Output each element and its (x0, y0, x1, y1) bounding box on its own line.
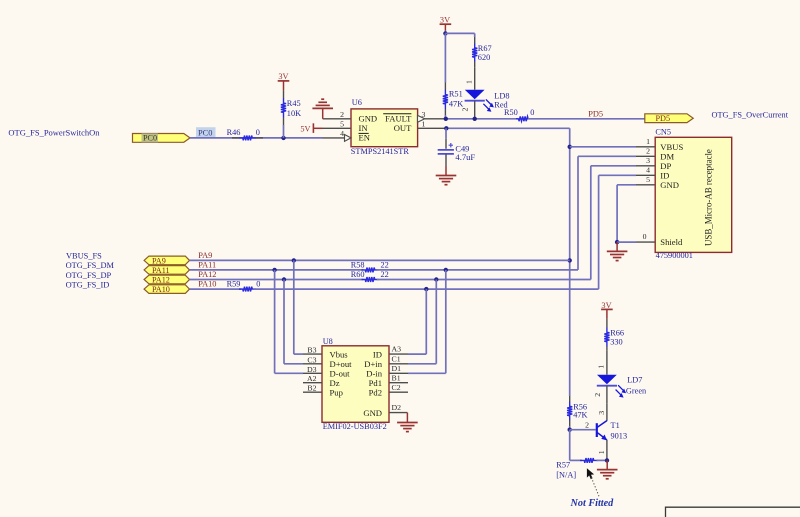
svg-text:U6: U6 (352, 98, 362, 107)
resistor R46 (232, 136, 263, 141)
svg-text:PC0: PC0 (198, 129, 212, 138)
svg-text:OUT: OUT (394, 123, 412, 133)
wire U8 D-out column (275, 270, 303, 373)
LED LD7 pin 1 wire (597, 351, 607, 375)
net name VBUS_FS (66, 251, 102, 260)
LED LD8 pin 2 wire (461, 101, 475, 119)
junction OUT/C49 (444, 126, 448, 130)
highlight behind net label PC0 (196, 127, 216, 137)
junction node R46/R45/EN (281, 136, 285, 140)
ground at CN5 shield (607, 242, 628, 261)
junction PA10/U8 ID (424, 287, 428, 291)
wire U8 D+in column (408, 280, 436, 364)
wire base node to R57 (570, 430, 582, 461)
svg-text:PD5: PD5 (656, 114, 671, 123)
wire DP column (591, 166, 636, 280)
port PA9 (144, 256, 189, 265)
resistor R45 (281, 90, 286, 125)
svg-text:PA12: PA12 (198, 270, 216, 279)
svg-text:DP: DP (660, 161, 671, 171)
ground at U6 pin 2 (312, 99, 333, 119)
svg-text:330: 330 (610, 337, 622, 346)
svg-text:4: 4 (340, 129, 344, 138)
svg-text:5: 5 (646, 175, 650, 184)
U8 pin name GND (363, 408, 382, 418)
CN5 pin name DM (660, 152, 674, 162)
U8 pin C3 (303, 355, 322, 364)
resistor R46 label (227, 128, 260, 137)
CN5 pin 0 Shield (636, 232, 655, 242)
svg-text:0: 0 (256, 128, 260, 137)
svg-text:GND: GND (359, 113, 378, 123)
svg-text:GND: GND (660, 180, 679, 190)
wire ID column (599, 175, 636, 289)
U8 pin C2 (389, 383, 408, 392)
resistor R45 labels (287, 99, 301, 118)
svg-text:A2: A2 (307, 374, 317, 383)
svg-text:D+out: D+out (330, 359, 353, 369)
svg-text:2: 2 (585, 420, 589, 429)
svg-text:VBUS_FS: VBUS_FS (66, 251, 102, 260)
U6 pin 5 IN (323, 120, 352, 129)
wire R50 to port PD5 (528, 118, 645, 120)
svg-text:R59: R59 (227, 280, 241, 289)
LED LD8 pin 1 wire (464, 68, 474, 90)
transistor T1 labels (611, 421, 628, 440)
svg-text:GND: GND (363, 408, 382, 418)
U6 pin 1 OUT (418, 120, 447, 129)
svg-text:OTG_FS_OverCurrent: OTG_FS_OverCurrent (712, 110, 789, 119)
U6 pin name IN (359, 123, 369, 133)
U8 designator (323, 337, 333, 346)
wire PA9 bus (190, 259, 570, 261)
wire U8 D+out column (284, 280, 303, 364)
resistor R57 labels (556, 461, 576, 480)
U8 pin name Pd2 (369, 388, 382, 398)
LED LD7 (597, 375, 626, 398)
CN5 pin name ID (660, 171, 669, 181)
svg-text:C1: C1 (392, 354, 401, 363)
U6 part number STMPS2141STR (351, 147, 410, 156)
svg-text:PA9: PA9 (152, 256, 166, 265)
CN5 pin 2 (636, 147, 655, 157)
resistor R50 labels (504, 108, 534, 117)
svg-text:1: 1 (464, 80, 473, 84)
svg-text:EN: EN (359, 133, 371, 143)
LED LD7 labels (626, 375, 647, 395)
svg-text:VBUS: VBUS (660, 142, 683, 152)
wire shield node to pin 0 (617, 241, 636, 243)
transistor T1 emitter wire (597, 440, 607, 461)
wire CN5 GND to shield node (617, 185, 636, 242)
U6 pin name OUT (394, 123, 412, 133)
CN5 pin name VBUS (660, 142, 683, 152)
wire base node to T1 (570, 420, 596, 429)
svg-text:OTG_FS_DM: OTG_FS_DM (66, 261, 115, 270)
net name OTG_FS_DP (66, 271, 112, 280)
wire VBUS to CN5 pin 1 (570, 146, 636, 148)
CN5 pin name DP (660, 161, 671, 171)
svg-text:LD8: LD8 (494, 92, 509, 101)
svg-text:2: 2 (340, 110, 344, 119)
capacitor C49 (438, 128, 454, 154)
svg-text:475900001: 475900001 (656, 251, 693, 260)
transistor T1 (597, 421, 607, 441)
svg-text:PA10: PA10 (198, 280, 216, 289)
resistor R57 (580, 458, 598, 463)
Not Fitted annotation (570, 498, 615, 509)
net name OTG_FS_PowerSwitchOn (8, 127, 100, 137)
wire R57 to emitter (597, 459, 608, 461)
CN5 pin 3 (636, 156, 655, 166)
svg-text:D2: D2 (392, 403, 402, 412)
svg-text:0: 0 (530, 108, 534, 117)
svg-text:Dz: Dz (330, 378, 340, 388)
svg-text:47K: 47K (449, 99, 463, 108)
svg-text:EMIF02-USB03F2: EMIF02-USB03F2 (323, 422, 387, 431)
port PA10 (144, 285, 189, 294)
svg-text:D3: D3 (307, 365, 317, 374)
resistor R67 (472, 37, 477, 68)
svg-text:1: 1 (597, 365, 606, 369)
svg-text:3V: 3V (278, 72, 288, 81)
U6 pin 2 GND (323, 110, 351, 119)
wire PA11 to R58 (190, 269, 364, 271)
svg-text:1: 1 (646, 137, 650, 146)
resistor R51 (443, 33, 448, 118)
svg-text:3V: 3V (440, 15, 450, 24)
svg-text:5: 5 (340, 120, 344, 129)
svg-text:R57: R57 (556, 461, 570, 470)
ground at T1 emitter (597, 460, 618, 478)
wire U8 D-in column (408, 270, 446, 373)
U6 pin name FAULT (active low) (383, 113, 412, 123)
power 3V (R45) (278, 72, 290, 91)
junction FAULT/R51 (444, 117, 448, 121)
svg-text:U8: U8 (323, 337, 333, 346)
resistor R51 labels (449, 90, 463, 109)
svg-text:4.7uF: 4.7uF (455, 152, 475, 162)
U6 pin name GND (359, 113, 378, 123)
svg-text:PA12: PA12 (152, 275, 170, 284)
svg-text:D1: D1 (392, 364, 402, 373)
resistor R60 labels (351, 270, 389, 279)
junction DM/U8 D-in (444, 268, 448, 272)
resistor R58 (362, 268, 379, 273)
resistor R59 labels (227, 280, 261, 289)
wire R58 to DM column (377, 269, 578, 271)
U8 pin B2 (303, 384, 322, 393)
junction PA12/U8 D+out (282, 277, 286, 281)
filter U8 body (322, 346, 389, 423)
junction PA11/U8 D-out (272, 268, 276, 272)
net label PA10 (198, 280, 216, 289)
U8 pin D1 (389, 364, 408, 373)
svg-text:PA11: PA11 (152, 266, 170, 275)
svg-text:CN5: CN5 (655, 127, 671, 136)
U8 pin name Vbus (330, 350, 349, 360)
U8 pin name D-out (330, 369, 351, 379)
svg-text:R46: R46 (227, 128, 241, 137)
wire PA12 to R60 (190, 279, 364, 281)
svg-text:IN: IN (359, 123, 369, 133)
svg-text:4: 4 (646, 166, 650, 175)
capacitor C49 labels (455, 144, 475, 162)
svg-text:22: 22 (381, 270, 389, 279)
svg-text:3: 3 (597, 411, 606, 415)
CN5 designator (655, 127, 671, 136)
resistor R59 (239, 287, 256, 292)
resistor R58 labels (351, 261, 389, 270)
U8 pin B1 (389, 373, 408, 382)
power 5V at U6 IN (300, 123, 322, 133)
resistor R56 labels (573, 402, 587, 419)
net label PD5 (588, 109, 603, 118)
svg-text:2: 2 (646, 147, 650, 156)
U6 pin 3 FAULT (418, 110, 447, 122)
junction VBUS/PA9 (568, 258, 572, 262)
U8 pin D3 (303, 365, 322, 374)
U8 part number EMIF02-USB03F2 (323, 422, 387, 431)
svg-text:2: 2 (593, 393, 602, 397)
wire R60 to DP column (377, 279, 591, 281)
wire PC0 to EN (190, 137, 323, 139)
LED LD7 pin 2 wire (593, 386, 607, 404)
svg-text:Shield: Shield (660, 237, 683, 247)
svg-text:PA11: PA11 (198, 261, 216, 270)
svg-text:1: 1 (597, 450, 606, 454)
svg-text:620: 620 (478, 53, 490, 62)
transistor T1 collector wire (597, 404, 607, 421)
CN5 pin name GND (660, 180, 679, 190)
junction VBUS/CN5 pin1 (568, 145, 572, 149)
port PA11 (144, 266, 189, 275)
svg-text:R66: R66 (610, 329, 624, 338)
svg-text:2: 2 (461, 108, 470, 112)
LED LD8 (465, 90, 494, 112)
svg-text:3: 3 (646, 156, 650, 165)
resistor R60 (362, 277, 379, 282)
svg-text:Pd1: Pd1 (369, 378, 382, 388)
CN5 pin 4 (636, 166, 655, 176)
U8 pin C1 (389, 354, 408, 363)
svg-text:0: 0 (256, 280, 260, 289)
title block corner (666, 507, 800, 517)
junction shield node (615, 240, 619, 244)
node A junction (443, 31, 447, 35)
svg-text:LD7: LD7 (627, 375, 642, 384)
CN5 pin name Shield (660, 237, 683, 247)
svg-text:0: 0 (643, 232, 647, 241)
svg-text:B3: B3 (307, 346, 316, 355)
U8 pin name ID (373, 350, 382, 360)
wire DM column (578, 156, 636, 270)
svg-text:R51: R51 (449, 90, 463, 99)
svg-text:C3: C3 (307, 355, 316, 364)
svg-text:Not Fitted: Not Fitted (570, 498, 615, 509)
resistor R50 (516, 116, 531, 121)
U8 pin name D-in (366, 369, 382, 379)
CN5 part number 475900001 (656, 251, 693, 260)
junction emitter node (605, 458, 609, 462)
net label PA11 (198, 261, 216, 270)
wire U8 Vbus column (294, 260, 303, 354)
svg-text:B1: B1 (392, 373, 401, 382)
port PD5 (645, 114, 693, 123)
svg-text:Pd2: Pd2 (369, 388, 382, 398)
U8 pin name Pd1 (369, 378, 382, 388)
svg-text:3: 3 (422, 110, 426, 119)
svg-text:R50: R50 (504, 108, 518, 117)
svg-text:9013: 9013 (611, 431, 628, 440)
svg-text:C2: C2 (392, 383, 401, 392)
wire node A to R67 branch (445, 33, 474, 37)
U6 pin 4 EN (323, 129, 352, 141)
svg-text:FAULT: FAULT (385, 113, 412, 123)
CN5 pin 5 (636, 175, 655, 185)
svg-text:10K: 10K (287, 109, 301, 118)
dotted callout line (592, 478, 599, 496)
op-amp U6 body (351, 109, 418, 147)
U6 designator (352, 98, 362, 107)
resistor R66 (604, 319, 609, 351)
cursor arrow (587, 468, 594, 479)
svg-text:PD5: PD5 (588, 109, 603, 118)
resistor R56 (567, 396, 572, 430)
resistor R66 labels (610, 329, 624, 347)
junction FAULT/LD8 (473, 117, 477, 121)
wire U8 ID column (408, 289, 426, 354)
svg-text:ID: ID (373, 350, 382, 360)
ground below C49 (436, 154, 457, 185)
U8 pin name Pup (330, 388, 343, 398)
U8 pin A3 (389, 345, 408, 354)
highlight on port PC0 text (142, 133, 159, 142)
net name OTG_FS_DM (66, 261, 115, 270)
U8 pin D2 GND (389, 403, 407, 412)
svg-text:R60: R60 (351, 270, 365, 279)
CN5 rotated text (704, 149, 714, 246)
CN5 pin 1 (636, 137, 655, 147)
svg-text:T1: T1 (611, 421, 620, 430)
svg-text:R45: R45 (287, 99, 301, 108)
svg-text:OTG_FS_DP: OTG_FS_DP (66, 271, 112, 280)
svg-text:22: 22 (381, 261, 389, 270)
U8 pin B3 (303, 346, 322, 355)
svg-text:OTG_FS_PowerSwitchOn: OTG_FS_PowerSwitchOn (8, 127, 100, 137)
net label PA12 (198, 270, 216, 279)
svg-text:ID: ID (660, 171, 669, 181)
svg-text:USB_Micro-AB receptacle: USB_Micro-AB receptacle (704, 149, 714, 246)
svg-text:R58: R58 (351, 261, 365, 270)
svg-text:Pup: Pup (330, 388, 343, 398)
svg-text:PA10: PA10 (152, 285, 170, 294)
net name OTG_FS_ID (66, 280, 110, 289)
svg-text:3V: 3V (601, 301, 611, 310)
resistor R67 labels (478, 44, 492, 62)
net label PA9 (198, 251, 212, 260)
port PC0 (133, 134, 191, 143)
svg-text:B2: B2 (307, 384, 316, 393)
net label PC0 (198, 129, 212, 138)
svg-text:5V: 5V (300, 124, 310, 133)
U6 pin name EN (active low) (359, 133, 371, 143)
U8 pin A2 (303, 374, 322, 383)
wire 3V to node A (444, 31, 446, 34)
port PA12 (144, 275, 189, 284)
power 3V (LD7) (601, 301, 613, 319)
net name OTG_FS_OverCurrent (712, 110, 789, 119)
connector CN5 body (655, 137, 732, 252)
power 3V (top) (440, 15, 452, 30)
junction DP/U8 D+in (434, 277, 438, 281)
svg-text:A3: A3 (392, 345, 402, 354)
svg-text:OTG_FS_ID: OTG_FS_ID (66, 280, 110, 289)
svg-text:D+in: D+in (364, 359, 382, 369)
U8 pin name D+in (364, 359, 382, 369)
wire R59 to ID column (254, 288, 599, 290)
svg-text:[N/A]: [N/A] (556, 471, 576, 480)
svg-text:PA9: PA9 (198, 251, 212, 260)
svg-text:STMPS2141STR: STMPS2141STR (351, 147, 410, 156)
wire OUT to VBUS column (446, 127, 569, 129)
svg-text:Vbus: Vbus (330, 350, 349, 360)
ground at U8 D2 (397, 413, 418, 432)
U8 pin name Dz (330, 378, 340, 388)
wire PA10 to R59 (190, 288, 242, 290)
wire R45 to node (283, 125, 285, 138)
svg-text:Green: Green (626, 387, 647, 396)
junction T1 base node (568, 428, 572, 432)
U8 pin name D+out (330, 359, 353, 369)
svg-text:DM: DM (660, 152, 674, 162)
wire VBUS column (569, 128, 571, 396)
LED LD8 labels (494, 92, 509, 110)
svg-text:1: 1 (422, 120, 426, 129)
junction PA9/U8 Vbus (292, 258, 296, 262)
wire FAULT to R50 (446, 118, 518, 120)
svg-text:PC0: PC0 (143, 134, 157, 143)
svg-text:47K: 47K (573, 410, 587, 419)
